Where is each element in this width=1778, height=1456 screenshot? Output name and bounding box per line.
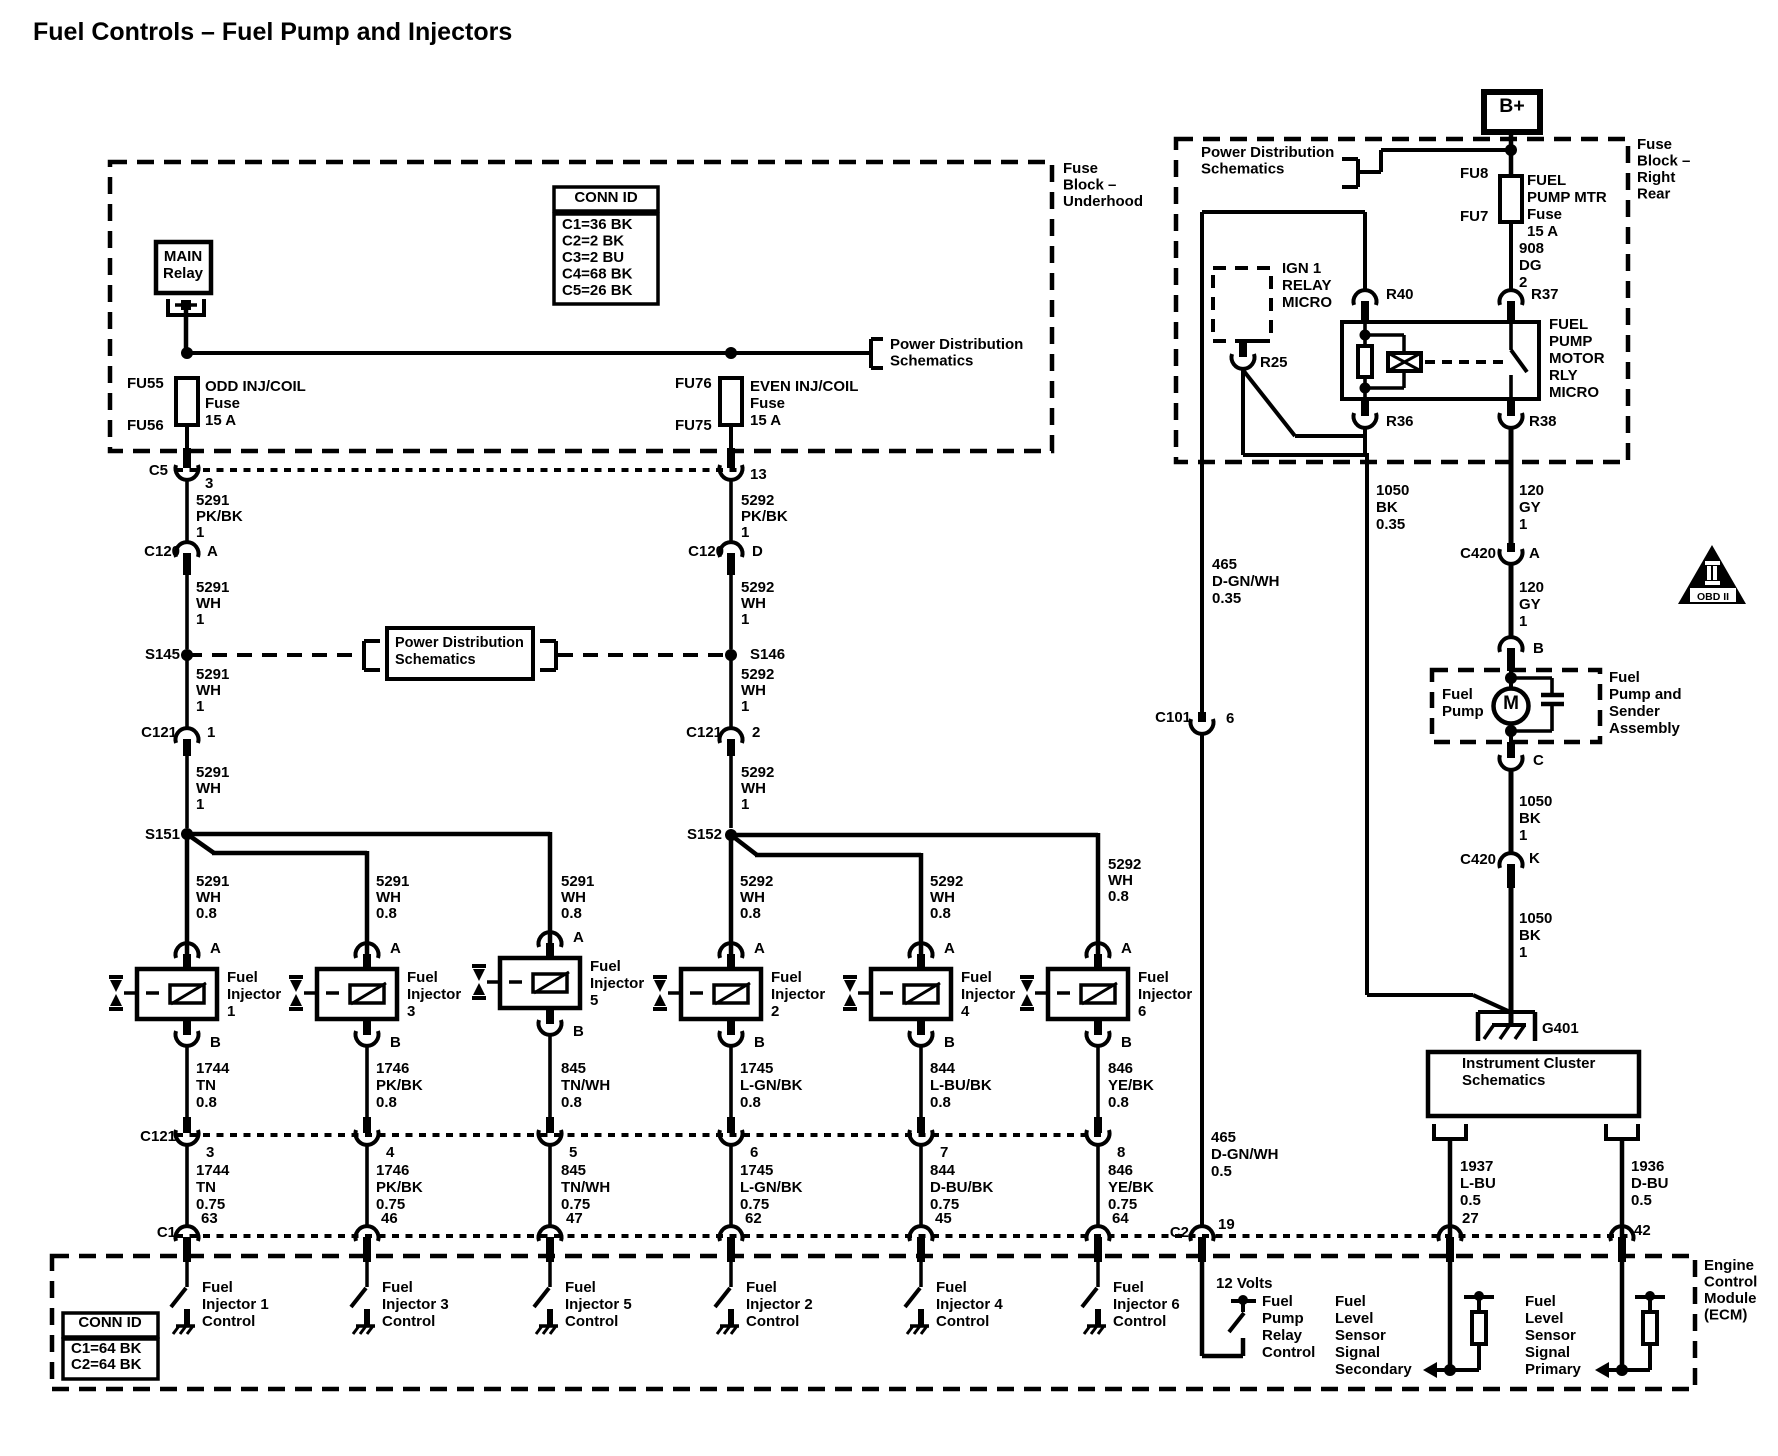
svg-text:WH: WH [1108,872,1133,889]
svg-text:1744: 1744 [196,1060,230,1077]
svg-text:0.8: 0.8 [376,905,397,922]
svg-text:OBD II: OBD II [1697,591,1729,603]
svg-text:6: 6 [1138,1003,1146,1020]
svg-text:0.8: 0.8 [1108,1094,1129,1111]
svg-text:Control: Control [746,1313,799,1330]
svg-text:C420: C420 [1460,545,1496,562]
svg-text:Power Distribution: Power Distribution [395,635,524,651]
svg-text:Rear: Rear [1637,186,1671,203]
svg-text:BK: BK [1519,810,1541,827]
svg-text:Injector: Injector [227,986,281,1003]
svg-text:3: 3 [206,1144,214,1161]
svg-text:1050: 1050 [1519,793,1552,810]
svg-text:6: 6 [750,1144,758,1161]
svg-text:Fuel: Fuel [1525,1293,1556,1310]
svg-text:5291: 5291 [196,873,229,890]
svg-text:Block –: Block – [1063,177,1116,194]
svg-text:Pump: Pump [1442,703,1484,720]
svg-text:A: A [573,929,584,946]
svg-text:1: 1 [196,611,204,628]
svg-text:846: 846 [1108,1162,1133,1179]
svg-text:5291: 5291 [196,492,229,509]
svg-text:0.5: 0.5 [1211,1163,1232,1180]
svg-text:Fuel: Fuel [1609,669,1640,686]
svg-text:0.5: 0.5 [1460,1192,1481,1209]
svg-text:1745: 1745 [740,1060,773,1077]
svg-text:Secondary: Secondary [1335,1361,1412,1378]
svg-text:2: 2 [1519,274,1527,291]
svg-text:EVEN INJ/COIL: EVEN INJ/COIL [750,378,858,395]
svg-text:Schematics: Schematics [1462,1072,1545,1089]
svg-text:0.8: 0.8 [740,1094,761,1111]
svg-text:B: B [210,1034,221,1051]
svg-text:Fuel: Fuel [1113,1279,1144,1296]
svg-text:Fuel: Fuel [771,969,802,986]
svg-text:WH: WH [740,889,765,906]
svg-text:L-GN/BK: L-GN/BK [740,1179,803,1196]
svg-text:PUMP: PUMP [1549,333,1592,350]
svg-text:GY: GY [1519,499,1541,516]
svg-text:Injector 2: Injector 2 [746,1296,813,1313]
svg-text:5291: 5291 [196,579,229,596]
svg-text:L-BU/BK: L-BU/BK [930,1077,992,1094]
svg-text:0.8: 0.8 [740,905,761,922]
svg-text:0.8: 0.8 [376,1094,397,1111]
svg-text:C2: C2 [1170,1224,1189,1241]
svg-text:Fuel: Fuel [936,1279,967,1296]
svg-text:WH: WH [376,889,401,906]
svg-text:5292: 5292 [930,873,963,890]
svg-text:Schematics: Schematics [890,353,973,370]
svg-text:Signal: Signal [1335,1344,1380,1361]
svg-text:844: 844 [930,1060,956,1077]
svg-text:Assembly: Assembly [1609,720,1681,737]
svg-text:Pump and: Pump and [1609,686,1682,703]
svg-text:CONN ID: CONN ID [78,1314,142,1331]
svg-text:2: 2 [771,1003,779,1020]
svg-text:5292: 5292 [741,764,774,781]
svg-text:B: B [1533,640,1544,657]
svg-text:C5=26 BK: C5=26 BK [562,282,633,299]
svg-text:Injector: Injector [771,986,825,1003]
svg-text:3: 3 [205,475,213,492]
svg-text:PK/BK: PK/BK [376,1077,423,1094]
svg-text:0.8: 0.8 [561,1094,582,1111]
svg-text:Fuel: Fuel [746,1279,777,1296]
svg-text:Fuel: Fuel [565,1279,596,1296]
svg-text:ODD INJ/COIL: ODD INJ/COIL [205,378,306,395]
svg-text:Fuse: Fuse [1637,136,1672,153]
svg-text:M: M [1503,693,1519,714]
svg-text:Pump: Pump [1262,1310,1304,1327]
svg-text:1: 1 [1519,613,1527,630]
svg-text:BK: BK [1376,499,1398,516]
svg-text:Fuel: Fuel [407,969,438,986]
svg-text:R40: R40 [1386,286,1414,303]
svg-text:FUEL: FUEL [1549,316,1588,333]
svg-text:6: 6 [1226,710,1234,727]
svg-text:S151: S151 [145,826,180,843]
svg-text:Power Distribution: Power Distribution [1201,144,1334,161]
svg-text:R36: R36 [1386,413,1414,430]
svg-text:C121: C121 [686,724,722,741]
svg-text:FUEL: FUEL [1527,172,1566,189]
svg-text:4: 4 [386,1144,395,1161]
svg-text:Right: Right [1637,169,1675,186]
svg-text:TN: TN [196,1179,216,1196]
svg-text:A: A [390,940,401,957]
svg-text:B: B [390,1034,401,1051]
svg-text:A: A [207,543,218,560]
svg-text:IGN 1: IGN 1 [1282,260,1321,277]
svg-text:1746: 1746 [376,1162,409,1179]
svg-text:Control: Control [202,1313,255,1330]
svg-text:Injector 1: Injector 1 [202,1296,269,1313]
svg-text:846: 846 [1108,1060,1133,1077]
svg-text:FU76: FU76 [675,375,712,392]
svg-text:FU8: FU8 [1460,165,1488,182]
svg-text:Power Distribution: Power Distribution [890,336,1023,353]
svg-text:Control: Control [1262,1344,1315,1361]
svg-text:B: B [1121,1034,1132,1051]
svg-text:Sender: Sender [1609,703,1660,720]
svg-text:CONN ID: CONN ID [574,189,638,206]
svg-text:1744: 1744 [196,1162,230,1179]
svg-text:0.8: 0.8 [561,905,582,922]
svg-text:WH: WH [196,682,221,699]
svg-text:A: A [1529,545,1540,562]
svg-text:27: 27 [1462,1210,1479,1227]
svg-text:Injector 3: Injector 3 [382,1296,449,1313]
svg-text:5291: 5291 [376,873,409,890]
svg-text:15 A: 15 A [1527,223,1558,240]
svg-text:4: 4 [961,1003,970,1020]
svg-text:1: 1 [196,524,204,541]
svg-text:Injector 5: Injector 5 [565,1296,632,1313]
svg-text:Module: Module [1704,1290,1757,1307]
svg-text:FU7: FU7 [1460,208,1488,225]
svg-text:D-GN/WH: D-GN/WH [1211,1146,1279,1163]
svg-text:C2=64 BK: C2=64 BK [71,1356,142,1373]
svg-text:Schematics: Schematics [1201,161,1284,178]
svg-text:Instrument Cluster: Instrument Cluster [1462,1055,1596,1072]
svg-text:C5: C5 [149,462,168,479]
svg-text:Level: Level [1525,1310,1563,1327]
svg-text:Fuel: Fuel [590,958,621,975]
svg-text:WH: WH [741,780,766,797]
svg-text:5291: 5291 [196,764,229,781]
svg-text:845: 845 [561,1162,586,1179]
svg-text:MAIN: MAIN [164,248,202,265]
svg-text:46: 46 [381,1210,398,1227]
svg-text:Schematics: Schematics [395,652,476,668]
svg-text:Injector 6: Injector 6 [1113,1296,1180,1313]
svg-text:1050: 1050 [1519,910,1552,927]
svg-text:S146: S146 [750,646,785,663]
svg-text:120: 120 [1519,482,1544,499]
svg-text:(ECM): (ECM) [1704,1307,1747,1324]
svg-text:1745: 1745 [740,1162,773,1179]
svg-text:0.8: 0.8 [930,1094,951,1111]
svg-text:WH: WH [741,682,766,699]
svg-text:TN/WH: TN/WH [561,1077,610,1094]
svg-text:1: 1 [1519,827,1527,844]
svg-text:B+: B+ [1499,95,1524,117]
svg-text:C120: C120 [144,543,180,560]
svg-text:62: 62 [745,1210,762,1227]
svg-text:1: 1 [741,524,749,541]
svg-text:Fuse: Fuse [1527,206,1562,223]
svg-text:465: 465 [1212,556,1237,573]
svg-text:0.35: 0.35 [1376,516,1405,533]
svg-text:TN/WH: TN/WH [561,1179,610,1196]
svg-text:Sensor: Sensor [1525,1327,1576,1344]
svg-text:WH: WH [196,595,221,612]
svg-text:1: 1 [1519,944,1527,961]
svg-text:C120: C120 [688,543,724,560]
svg-text:Injector: Injector [1138,986,1192,1003]
svg-text:42: 42 [1634,1222,1651,1239]
svg-text:5292: 5292 [1108,856,1141,873]
svg-text:Fuse: Fuse [205,395,240,412]
svg-text:Control: Control [382,1313,435,1330]
svg-text:MOTOR: MOTOR [1549,350,1605,367]
svg-text:C121: C121 [141,724,177,741]
svg-text:Control: Control [1704,1274,1757,1291]
svg-text:1: 1 [1519,516,1527,533]
svg-text:C1: C1 [157,1224,176,1241]
svg-text:Injector 4: Injector 4 [936,1296,1003,1313]
svg-text:WH: WH [741,595,766,612]
svg-text:C420: C420 [1460,851,1496,868]
svg-text:Fuel: Fuel [1335,1293,1366,1310]
svg-text:K: K [1529,850,1540,867]
svg-text:1746: 1746 [376,1060,409,1077]
svg-text:Signal: Signal [1525,1344,1570,1361]
svg-text:5292: 5292 [740,873,773,890]
svg-text:1937: 1937 [1460,1158,1493,1175]
svg-text:Underhood: Underhood [1063,193,1143,210]
svg-text:47: 47 [566,1210,583,1227]
svg-text:RELAY: RELAY [1282,277,1331,294]
svg-text:D-GN/WH: D-GN/WH [1212,573,1280,590]
svg-text:Injector: Injector [961,986,1015,1003]
svg-text:63: 63 [201,1210,218,1227]
svg-text:C4=68 BK: C4=68 BK [562,266,633,283]
svg-text:120: 120 [1519,579,1544,596]
svg-text:Injector: Injector [407,986,461,1003]
svg-text:845: 845 [561,1060,586,1077]
svg-text:A: A [944,940,955,957]
svg-text:C1=64 BK: C1=64 BK [71,1340,142,1357]
svg-text:YE/BK: YE/BK [1108,1077,1154,1094]
svg-text:8: 8 [1117,1144,1125,1161]
svg-text:5292: 5292 [741,666,774,683]
svg-text:1: 1 [207,724,215,741]
svg-text:D: D [752,543,763,560]
svg-text:1: 1 [196,796,204,813]
svg-text:Block –: Block – [1637,153,1690,170]
svg-text:PK/BK: PK/BK [376,1179,423,1196]
svg-text:12 Volts: 12 Volts [1216,1275,1272,1292]
svg-text:MICRO: MICRO [1282,294,1332,311]
svg-text:D-BU/BK: D-BU/BK [930,1179,993,1196]
svg-text:15 A: 15 A [750,412,781,429]
svg-text:C: C [1533,752,1544,769]
svg-text:R37: R37 [1531,286,1559,303]
svg-text:YE/BK: YE/BK [1108,1179,1154,1196]
svg-text:5: 5 [569,1144,577,1161]
svg-text:Level: Level [1335,1310,1373,1327]
svg-text:0.8: 0.8 [196,1094,217,1111]
svg-text:Control: Control [1113,1313,1166,1330]
svg-text:3: 3 [407,1003,415,1020]
svg-text:C121: C121 [140,1128,176,1145]
svg-text:Control: Control [565,1313,618,1330]
svg-text:L-GN/BK: L-GN/BK [740,1077,803,1094]
svg-text:0.8: 0.8 [930,905,951,922]
svg-text:A: A [754,940,765,957]
svg-text:Control: Control [936,1313,989,1330]
svg-text:0.8: 0.8 [196,905,217,922]
svg-text:Fuse: Fuse [750,395,785,412]
svg-text:B: B [944,1034,955,1051]
svg-text:5292: 5292 [741,492,774,509]
svg-text:S145: S145 [145,646,180,663]
svg-text:1: 1 [227,1003,235,1020]
svg-text:Fuel: Fuel [961,969,992,986]
svg-text:C2=2 BK: C2=2 BK [562,233,624,250]
svg-text:Fuel: Fuel [1442,686,1473,703]
svg-text:MICRO: MICRO [1549,384,1599,401]
svg-text:19: 19 [1218,1216,1235,1233]
svg-text:PUMP MTR: PUMP MTR [1527,189,1607,206]
svg-text:BK: BK [1519,927,1541,944]
svg-text:L-BU: L-BU [1460,1175,1496,1192]
svg-text:FU56: FU56 [127,417,164,434]
svg-text:R25: R25 [1260,354,1288,371]
svg-text:Fuel: Fuel [1262,1293,1293,1310]
svg-text:15 A: 15 A [205,412,236,429]
svg-text:Sensor: Sensor [1335,1327,1386,1344]
svg-text:B: B [573,1023,584,1040]
svg-text:PK/BK: PK/BK [741,508,788,525]
svg-text:Fuel: Fuel [382,1279,413,1296]
svg-text:D-BU: D-BU [1631,1175,1669,1192]
svg-text:2: 2 [752,724,760,741]
svg-text:S152: S152 [687,826,722,843]
svg-text:FU55: FU55 [127,375,164,392]
svg-text:Injector: Injector [590,975,644,992]
svg-text:7: 7 [940,1144,948,1161]
svg-text:Relay: Relay [163,265,204,282]
svg-text:Fuel: Fuel [227,969,258,986]
svg-text:1050: 1050 [1376,482,1409,499]
svg-text:Engine: Engine [1704,1257,1754,1274]
svg-text:Fuel: Fuel [202,1279,233,1296]
svg-text:Fuel Controls – Fuel Pump and: Fuel Controls – Fuel Pump and Injectors [33,18,512,46]
svg-text:0.8: 0.8 [1108,888,1129,905]
svg-text:B: B [754,1034,765,1051]
svg-text:Relay: Relay [1262,1327,1303,1344]
svg-text:1: 1 [196,698,204,715]
svg-text:WH: WH [196,780,221,797]
svg-text:TN: TN [196,1077,216,1094]
svg-text:DG: DG [1519,257,1542,274]
svg-text:5: 5 [590,992,598,1009]
svg-text:R38: R38 [1529,413,1557,430]
svg-text:5291: 5291 [561,873,594,890]
svg-text:0.5: 0.5 [1631,1192,1652,1209]
svg-text:Primary: Primary [1525,1361,1582,1378]
svg-text:1936: 1936 [1631,1158,1664,1175]
svg-text:1: 1 [741,796,749,813]
svg-text:C3=2 BU: C3=2 BU [562,249,624,266]
svg-text:C1=36 BK: C1=36 BK [562,216,633,233]
svg-text:465: 465 [1211,1129,1236,1146]
svg-text:A: A [210,940,221,957]
svg-text:C101: C101 [1155,709,1191,726]
svg-text:0.35: 0.35 [1212,590,1241,607]
svg-text:844: 844 [930,1162,956,1179]
svg-text:13: 13 [750,466,767,483]
svg-text:WH: WH [561,889,586,906]
svg-text:G401: G401 [1542,1020,1579,1037]
svg-text:5291: 5291 [196,666,229,683]
svg-text:Fuse: Fuse [1063,160,1098,177]
svg-text:A: A [1121,940,1132,957]
svg-text:5292: 5292 [741,579,774,596]
svg-text:FU75: FU75 [675,417,712,434]
svg-text:45: 45 [935,1210,952,1227]
svg-text:RLY: RLY [1549,367,1578,384]
svg-text:GY: GY [1519,596,1541,613]
svg-text:WH: WH [930,889,955,906]
svg-text:908: 908 [1519,240,1544,257]
svg-text:1: 1 [741,611,749,628]
svg-text:WH: WH [196,889,221,906]
svg-text:Fuel: Fuel [1138,969,1169,986]
svg-text:PK/BK: PK/BK [196,508,243,525]
svg-text:64: 64 [1112,1210,1129,1227]
svg-text:1: 1 [741,698,749,715]
